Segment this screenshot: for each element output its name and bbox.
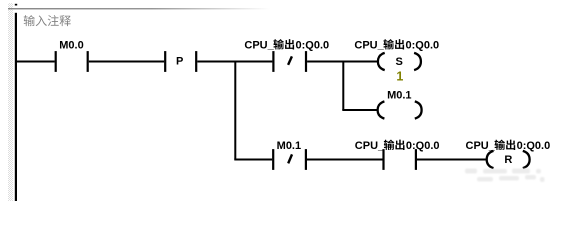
svg-text:M0.0: M0.0	[59, 40, 83, 52]
contact P (positive edge)	[165, 51, 196, 72]
faint watermark	[465, 169, 545, 183]
R coil value label CPU_输出0:Q0.0	[466, 140, 551, 152]
NC contact value label CPU_输出0:Q0.0	[244, 39, 329, 51]
svg-text:0:Q0.0: 0:Q0.0	[406, 40, 440, 52]
contact M0.1 (normally closed)	[273, 149, 306, 170]
contact CPU_输出0:Q0.0 (normally closed)	[273, 51, 306, 72]
wire rail to contact M0.0	[16, 61, 55, 63]
contact M0.0 (normally open)	[56, 51, 88, 72]
wire M0.0 to P contact	[89, 61, 164, 63]
coil S (set)	[378, 53, 421, 70]
svg-text:0:Q0.0: 0:Q0.0	[296, 40, 330, 52]
wire NC contact to S coil, passing coil branch junction	[307, 61, 378, 63]
svg-text:M0.1: M0.1	[387, 90, 411, 102]
svg-text:CPU_: CPU_	[466, 140, 496, 152]
svg-text:CPU_: CPU_	[355, 140, 385, 152]
left margin checker gutter	[8, 3, 13, 201]
svg-text:0:Q0.0: 0:Q0.0	[517, 140, 551, 152]
power rail stub above separator	[15, 4, 17, 6]
wire P contact to NC contact, passing branch junction	[197, 61, 272, 63]
svg-text:M0.1: M0.1	[277, 140, 301, 152]
network comment 输入注释	[24, 15, 71, 26]
junction branch wire down to rung 2	[234, 62, 236, 160]
svg-text:CPU_: CPU_	[244, 40, 274, 52]
coil R (reset)	[487, 151, 530, 168]
wire NO contact to R coil	[417, 159, 486, 161]
wire branch corner to NC contact M0.1	[234, 159, 272, 161]
wire junction to M0.1 coil	[342, 109, 377, 111]
coil M0.1	[378, 101, 422, 118]
svg-text:CPU_: CPU_	[354, 40, 384, 52]
top separator gray line	[8, 8, 270, 9]
NO contact value label CPU_输出0:Q0.0	[355, 140, 440, 152]
svg-text:S: S	[396, 56, 403, 68]
svg-text:1: 1	[396, 70, 403, 84]
left power rail	[15, 13, 17, 201]
svg-text:R: R	[504, 154, 512, 166]
NC slash of contact	[288, 56, 292, 65]
NC slash of M0.1 contact	[288, 154, 292, 163]
contact CPU_输出0:Q0.0 (normally open)	[384, 149, 416, 170]
svg-text:0:Q0.0: 0:Q0.0	[406, 140, 440, 152]
svg-text:P: P	[176, 55, 183, 67]
S coil value label CPU_输出0:Q0.0	[354, 39, 439, 51]
branch wire down to M0.1 coil	[342, 62, 344, 111]
wire M0.1 NC to CPU contact	[307, 159, 383, 161]
